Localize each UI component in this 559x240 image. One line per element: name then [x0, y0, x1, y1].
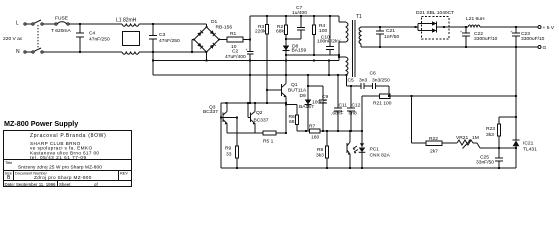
- svg-text:C11: C11: [339, 102, 348, 108]
- svg-text:T1: T1: [356, 14, 362, 20]
- svg-text:3n3: 3n3: [359, 77, 367, 83]
- svg-text:3300uF/10: 3300uF/10: [521, 36, 545, 42]
- svg-text:+: +: [511, 30, 513, 34]
- svg-text:PC1: PC1: [370, 147, 380, 153]
- svg-text:C5: C5: [348, 77, 355, 83]
- svg-text:47uF/400: 47uF/400: [225, 54, 246, 60]
- svg-text:R5 1: R5 1: [263, 139, 274, 145]
- svg-text:R23: R23: [486, 126, 495, 132]
- svg-text:3k3: 3k3: [316, 152, 324, 158]
- svg-text:REV: REV: [120, 171, 128, 175]
- svg-text:33nF/50: 33nF/50: [476, 160, 494, 166]
- svg-text:CNX 82A: CNX 82A: [370, 153, 391, 159]
- svg-text:D9: D9: [300, 93, 307, 99]
- svg-text:tel. 05/43 21 61 77-09: tel. 05/43 21 61 77-09: [30, 155, 87, 160]
- svg-text:Zdroj pro Sharp MZ-800: Zdroj pro Sharp MZ-800: [34, 175, 92, 180]
- svg-text:D1: D1: [211, 19, 218, 25]
- svg-text:Date:: Date:: [5, 182, 16, 187]
- svg-text:L1 82mH: L1 82mH: [116, 18, 137, 24]
- svg-text:Title: Title: [5, 160, 13, 165]
- svg-text:47nF/250: 47nF/250: [89, 37, 110, 43]
- svg-text:.68nF: .68nF: [331, 110, 344, 116]
- svg-text:+ 5 V: + 5 V: [543, 25, 555, 31]
- svg-text:R8: R8: [317, 147, 324, 153]
- svg-text:C12: C12: [352, 102, 361, 108]
- svg-text:1u/400: 1u/400: [292, 10, 307, 16]
- svg-text:C9: C9: [322, 94, 329, 100]
- svg-text:RB-156: RB-156: [216, 25, 233, 31]
- svg-text:100: 100: [319, 28, 327, 34]
- svg-text:FUSE: FUSE: [55, 16, 69, 22]
- svg-text:100nF: 100nF: [312, 100, 326, 106]
- svg-text:Q2: Q2: [256, 110, 263, 116]
- svg-text:C21: C21: [386, 28, 395, 34]
- svg-text:Sheet: Sheet: [59, 182, 71, 187]
- svg-text:VR21: VR21: [456, 135, 469, 141]
- svg-text:C4: C4: [89, 31, 96, 37]
- svg-text:BUT11A: BUT11A: [288, 88, 307, 94]
- svg-text:September 11, 1996: September 11, 1996: [16, 182, 56, 187]
- svg-text:68: 68: [289, 119, 295, 125]
- svg-text:MZ-800 Power Supply: MZ-800 Power Supply: [4, 119, 78, 128]
- svg-text:Q1: Q1: [291, 82, 298, 88]
- svg-text:TL431: TL431: [523, 147, 537, 153]
- svg-text:3300uF/10: 3300uF/10: [474, 36, 498, 42]
- svg-text:220 V ac: 220 V ac: [3, 36, 23, 42]
- svg-text:33: 33: [226, 152, 232, 158]
- svg-text:Snizeny zdroj 25 W pro Sharp M: Snizeny zdroj 25 W pro Sharp MZ-800: [18, 165, 102, 170]
- svg-text:100nF/2kV: 100nF/2kV: [317, 39, 341, 45]
- svg-text:R7: R7: [309, 124, 316, 130]
- svg-text:1M: 1M: [472, 135, 479, 141]
- svg-text:C2: C2: [232, 49, 239, 55]
- svg-text:C3: C3: [159, 32, 166, 38]
- svg-text:C6: C6: [370, 70, 377, 76]
- svg-text:BC337: BC337: [203, 109, 218, 115]
- svg-text:220k: 220k: [255, 29, 266, 35]
- svg-text:68k: 68k: [276, 29, 284, 35]
- svg-text:R21 100: R21 100: [373, 101, 392, 107]
- svg-text:IC21: IC21: [523, 141, 534, 147]
- svg-text:160: 160: [311, 134, 319, 140]
- svg-text:BA159: BA159: [292, 48, 307, 54]
- svg-text:Zpracoval P.Branda (8OW): Zpracoval P.Branda (8OW): [30, 133, 106, 139]
- svg-text:3k3: 3k3: [486, 132, 494, 138]
- svg-text:6n8: 6n8: [349, 110, 357, 116]
- svg-text:+: +: [246, 48, 248, 52]
- svg-text:D21 SBL 1040CT: D21 SBL 1040CT: [416, 10, 454, 16]
- svg-text:L: L: [16, 21, 19, 27]
- svg-text:3n3/250: 3n3/250: [372, 77, 390, 83]
- svg-text:R22: R22: [429, 136, 438, 142]
- svg-text:+: +: [460, 30, 462, 34]
- svg-text:2k7: 2k7: [430, 149, 438, 155]
- svg-text:1nF/50: 1nF/50: [384, 34, 400, 40]
- svg-text:R1: R1: [230, 31, 237, 37]
- svg-text:BC337: BC337: [254, 118, 269, 124]
- svg-text:R9: R9: [225, 146, 232, 152]
- svg-text:T 620mA: T 620mA: [51, 28, 71, 34]
- svg-text:N: N: [16, 49, 20, 55]
- svg-text:L21 6uH: L21 6uH: [466, 16, 485, 22]
- svg-text:47nF/250: 47nF/250: [159, 38, 180, 44]
- svg-text:G: G: [543, 45, 547, 51]
